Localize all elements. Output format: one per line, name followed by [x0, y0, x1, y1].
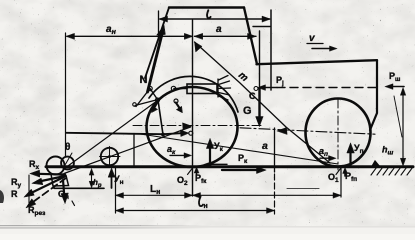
- P_j inertia force arrow at C: [262, 87, 277, 89]
- link vertical to lower hitch: [158, 100, 163, 135]
- l_n dimension line: [116, 210, 275, 212]
- cab left edge: [145, 8, 169, 79]
- implement body blob: [47, 157, 65, 175]
- velocity v arrow: [307, 43, 323, 45]
- front axle dash-dot axis: [240, 128, 375, 134]
- dimension a: [195, 35, 257, 37]
- support wedge triangle: [372, 161, 381, 167]
- ground hatching right: [371, 167, 413, 175]
- front axle vertical dash-dot: [337, 99, 339, 170]
- cylinder rod: [174, 88, 187, 90]
- implement share quad: [51, 174, 69, 186]
- a extension right / C line upper: [259, 31, 261, 88]
- h_p depth dimension: [91, 172, 93, 185]
- h_w dimension double arrow: [402, 92, 404, 161]
- force R_rez dashed arrow: [33, 178, 66, 202]
- force Y_n arrow: [111, 175, 113, 188]
- a_k offset arrow: [170, 154, 186, 156]
- force R arrow: [30, 177, 64, 194]
- R_y vertical construction line: [28, 175, 30, 203]
- O1 leader tick: [336, 169, 341, 175]
- l dim arrowheads: [159, 16, 168, 22]
- pivot rod end: [171, 86, 175, 90]
- link rod-to-pivot: [150, 89, 158, 100]
- label l: [207, 10, 211, 18]
- dimension a_n: [67, 35, 192, 37]
- rear axle dash-dot axis: [133, 125, 264, 127]
- trace line A implement to rear axle: [64, 127, 191, 174]
- front wheel: [306, 99, 371, 167]
- pivot upper hitch: [148, 86, 152, 90]
- hydraulic cylinder body: [187, 84, 217, 94]
- hood top: [257, 60, 378, 64]
- lower link with push force arrow: [67, 133, 182, 134]
- front offset a_p arrow: [320, 157, 331, 159]
- cab roof: [169, 6, 244, 8]
- a_n extension left: [65, 33, 67, 156]
- m arrowhead: [195, 42, 202, 52]
- pivot link right: [174, 99, 178, 103]
- rear reaction Y_k arrow: [209, 146, 211, 167]
- l extension left: [158, 11, 160, 40]
- front contact vertical extension: [340, 167, 342, 197]
- weight G arrow: [258, 89, 260, 119]
- stray tick: [72, 201, 75, 206]
- h_w leader line: [394, 96, 402, 137]
- left edge ink smudge: [0, 190, 4, 203]
- cylinder anchor hatching: [218, 76, 231, 101]
- cab window sill: [253, 26, 270, 28]
- rear fender arc: [149, 76, 238, 112]
- a_n dim arrowheads: [66, 33, 75, 39]
- trace line B implement to upper hitch: [65, 101, 158, 169]
- P_fk small arrow: [196, 171, 198, 175]
- furrow bottom line: [54, 187, 104, 189]
- force N arrow: [148, 30, 164, 92]
- lower hitch junction: [161, 133, 164, 136]
- weight G_n arrow: [63, 180, 64, 196]
- ground line: [46, 165, 413, 168]
- link cross: [135, 100, 158, 106]
- dimension l: [160, 18, 270, 20]
- link force left arrow: [153, 102, 158, 110]
- rear small left arrow: [209, 163, 227, 165]
- l extension right: [270, 10, 272, 90]
- link upper-left: [136, 89, 150, 107]
- C vertical dashed extension: [274, 128, 276, 172]
- support wheel: [101, 148, 118, 165]
- arrowhead on frame axis at C line: [277, 127, 287, 134]
- implement vertical extension: [115, 168, 117, 213]
- front reaction Y_p arrow: [349, 150, 351, 167]
- thrust line m: [195, 42, 331, 163]
- trace line lower hitch to front contact: [137, 134, 338, 165]
- O2 leader tick: [188, 168, 193, 175]
- label l_n (script ell): [199, 197, 203, 207]
- point C marker: [254, 87, 258, 91]
- rear wheel: [147, 87, 238, 167]
- wheelbase dimension line: [116, 194, 342, 196]
- implement frame upright: [133, 134, 135, 167]
- pivot at axle: [189, 131, 193, 135]
- force R_y arrow: [39, 176, 65, 182]
- force R_x arrow: [37, 173, 65, 176]
- cab right edge: [244, 8, 257, 65]
- hood front edge: [370, 60, 377, 130]
- P_w force arrow: [390, 86, 404, 88]
- a dim arrowheads: [194, 33, 203, 39]
- link force right arrow: [176, 103, 181, 110]
- force arrowhead on rear axis at axle: [183, 123, 192, 130]
- theta leader: [65, 153, 72, 165]
- pivot frame bracket: [133, 103, 137, 107]
- ghost print line: [287, 188, 319, 190]
- pivot link left: [156, 98, 160, 102]
- driving force P_k arrow: [222, 169, 258, 171]
- rear axle vertical line: [192, 20, 194, 196]
- air drag dashed line of action: [277, 87, 381, 89]
- P_fp small arrow: [344, 172, 346, 176]
